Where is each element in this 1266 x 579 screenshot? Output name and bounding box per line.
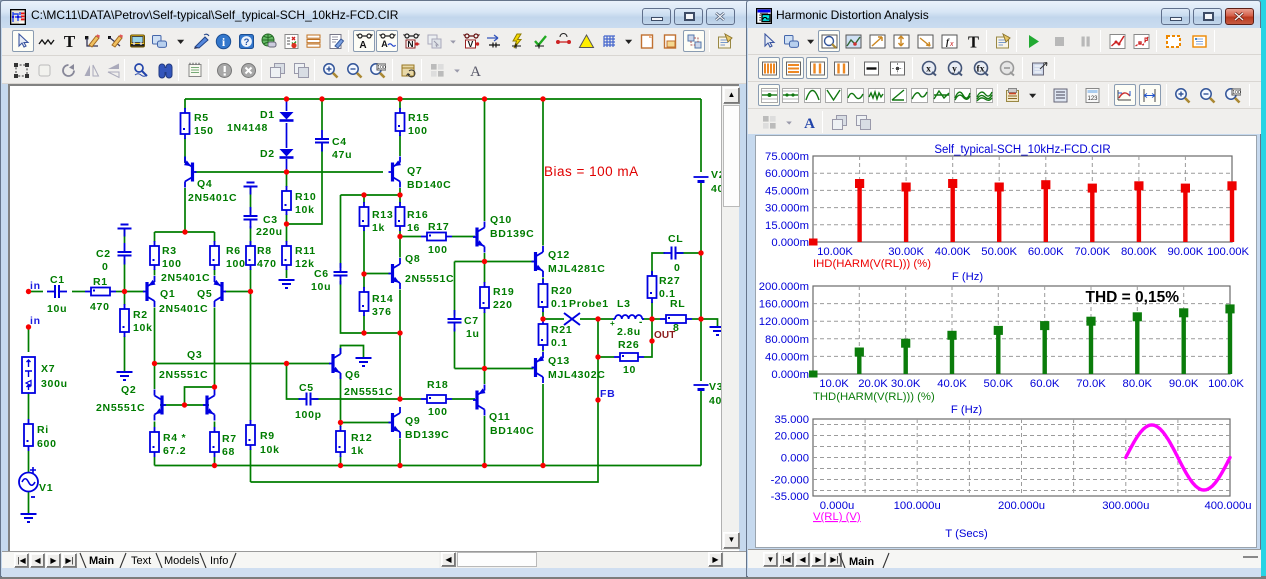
wire probe left bbox=[543, 318, 564, 320]
toolbar icon: valley bbox=[780, 84, 802, 106]
toolbar icon: smooth wave bbox=[844, 84, 866, 106]
wire Q3 collector up bbox=[214, 387, 216, 389]
svg-text:Q10: Q10 bbox=[490, 214, 512, 226]
junction bbox=[397, 396, 402, 401]
svg-text:10: 10 bbox=[623, 364, 636, 376]
toolbar icon: show node names bbox=[400, 30, 422, 52]
toolbar icon: vertical tag bbox=[890, 30, 912, 52]
svg-text:R15: R15 bbox=[408, 112, 429, 124]
junction bbox=[284, 169, 289, 174]
ground under R2 bbox=[117, 372, 133, 380]
dark strip at bottom bbox=[0, 576, 1266, 579]
wire X7 to Ri bbox=[28, 393, 30, 419]
plot 1 x axis labels bbox=[817, 246, 1249, 258]
wire R8 top bbox=[250, 242, 252, 246]
toolbar icon: font bbox=[464, 59, 486, 81]
wire R8 bottom to node bbox=[250, 269, 252, 292]
transistor Q1 bbox=[143, 276, 156, 307]
svg-text:y: y bbox=[952, 64, 957, 74]
svg-text:75.000m: 75.000m bbox=[765, 151, 809, 163]
svg-text:R26: R26 bbox=[618, 339, 639, 351]
resistor R5 bbox=[181, 108, 190, 139]
resistor R14 bbox=[360, 287, 369, 316]
junction bbox=[338, 463, 343, 468]
junction bbox=[361, 192, 366, 197]
wire R6 top bbox=[214, 232, 216, 242]
svg-text:V1: V1 bbox=[39, 482, 53, 494]
transistor Q8 bbox=[389, 258, 401, 289]
wire C3 to R8 bbox=[250, 226, 252, 242]
svg-text:C2: C2 bbox=[96, 248, 111, 260]
plot 3 x axis labels bbox=[820, 500, 1252, 512]
wire C2 bottom to sum node bbox=[124, 259, 126, 292]
toolbar icon: cross wave bbox=[930, 84, 952, 106]
wire R13 top bbox=[363, 195, 365, 203]
toolbar icon: span bbox=[1139, 84, 1161, 106]
capacitor C4 bbox=[315, 130, 329, 152]
svg-text:R19: R19 bbox=[493, 286, 514, 298]
toolbar icon: layout grid bbox=[426, 59, 448, 81]
svg-text:100: 100 bbox=[162, 258, 182, 270]
svg-text:50.0K: 50.0K bbox=[984, 378, 1014, 390]
svg-text:in: in bbox=[30, 280, 41, 292]
svg-text:40.0K: 40.0K bbox=[937, 378, 967, 390]
svg-text:C1: C1 bbox=[50, 274, 65, 286]
wire R12 top bbox=[340, 423, 342, 428]
transistor Q9 bbox=[389, 407, 401, 438]
capacitor C1 bbox=[47, 285, 67, 298]
wire Q3 emitter bbox=[214, 422, 216, 428]
junction bbox=[152, 361, 157, 366]
svg-text:0: 0 bbox=[102, 261, 109, 273]
svg-text:BD139C: BD139C bbox=[405, 429, 449, 441]
ground above C2 bbox=[118, 225, 132, 237]
svg-text:2N5551C: 2N5551C bbox=[344, 386, 393, 398]
svg-text:0.000m: 0.000m bbox=[771, 237, 809, 249]
toolbar icon: watch bbox=[1188, 30, 1210, 52]
wire ground stub at RL bbox=[701, 319, 718, 327]
wire VF node y362 bbox=[155, 363, 331, 365]
svg-text:D1: D1 bbox=[260, 109, 275, 121]
svg-text:470: 470 bbox=[257, 258, 277, 270]
svg-text:V3: V3 bbox=[709, 381, 721, 393]
svg-text:R13: R13 bbox=[372, 209, 393, 221]
source V1 bbox=[19, 467, 38, 497]
wire Q6 collector staple bbox=[341, 346, 364, 358]
toolbar icon: close x circle bbox=[237, 59, 259, 81]
analysis window icon bbox=[756, 8, 772, 24]
toolbar icon: zoom in bbox=[1172, 84, 1194, 106]
toolbar icon: flip vertical bbox=[80, 59, 102, 81]
toolbar icon: show voltages bbox=[460, 30, 482, 52]
wire L3 right node bbox=[642, 318, 652, 320]
toolbar icon: show power bbox=[507, 30, 529, 52]
toolbar icon: text mode bbox=[962, 30, 984, 52]
svg-text:Q1: Q1 bbox=[160, 288, 175, 300]
wire R21 bbox=[542, 319, 544, 320]
toolbar icon: show conditions bbox=[530, 30, 552, 52]
plot 1 gridlines bbox=[813, 156, 1232, 242]
toolbar icon: dropdown grey bbox=[445, 30, 462, 52]
toolbar icon: zoom fx bbox=[970, 57, 992, 79]
resistor R26 bbox=[614, 353, 644, 361]
wire RL left bbox=[652, 318, 660, 320]
resistor R13 bbox=[360, 202, 369, 231]
svg-text:60.000m: 60.000m bbox=[765, 168, 809, 180]
toolbar icon: bring front bbox=[828, 111, 850, 133]
svg-text:D2: D2 bbox=[260, 148, 275, 160]
svg-text:R9: R9 bbox=[260, 430, 275, 442]
svg-text:40: 40 bbox=[711, 183, 721, 195]
toolbar icon: component mode bbox=[149, 30, 171, 52]
junction bbox=[540, 96, 545, 101]
svg-text:376: 376 bbox=[372, 306, 392, 318]
toolbar icon: info mode bbox=[213, 30, 235, 52]
resistor R10 bbox=[282, 186, 291, 215]
svg-text:A: A bbox=[381, 39, 388, 49]
svg-text:IHD(HARM(V(RL))) (%): IHD(HARM(V(RL))) (%) bbox=[813, 258, 931, 270]
toolbar icon: layout grid bbox=[758, 111, 780, 133]
svg-text:0: 0 bbox=[674, 262, 681, 274]
junction bbox=[397, 330, 402, 335]
toolbar icon: paste waveform bbox=[1003, 84, 1025, 106]
svg-text:30.000m: 30.000m bbox=[765, 203, 809, 215]
junction bbox=[397, 96, 402, 101]
toolbar icon: grid dropdown bbox=[620, 30, 637, 52]
svg-text:100: 100 bbox=[428, 406, 448, 418]
toolbar icon: send back bbox=[852, 111, 874, 133]
svg-text:-: - bbox=[639, 317, 643, 328]
svg-text:Q8: Q8 bbox=[405, 253, 420, 265]
junction bbox=[595, 316, 600, 321]
svg-text:R1: R1 bbox=[93, 276, 108, 288]
toolbar icon: run bbox=[1022, 30, 1044, 52]
toolbar icon: properties bbox=[992, 30, 1014, 52]
wire R18 feed bbox=[400, 398, 421, 400]
junction bbox=[698, 250, 703, 255]
svg-text:A: A bbox=[470, 64, 481, 79]
svg-text:10.0K: 10.0K bbox=[819, 378, 849, 390]
wire C4 bottom to node y223 bbox=[287, 143, 323, 224]
wire Q5 base to R8 node bbox=[225, 291, 251, 293]
wire Q12 base rail y260 bbox=[455, 261, 534, 263]
bottom tab row bbox=[748, 549, 1261, 568]
subckt X7 bbox=[22, 357, 35, 393]
junction bbox=[182, 229, 187, 234]
toolbar icon: page icon 2 bbox=[659, 30, 681, 52]
svg-text:0.1: 0.1 bbox=[551, 298, 568, 310]
svg-text:Self_typical-SCH_10kHz-FCD.CIR: Self_typical-SCH_10kHz-FCD.CIR bbox=[934, 144, 1110, 156]
wire R27 top to CL bbox=[652, 253, 665, 298]
wire Q3 diode bracket bbox=[185, 387, 215, 405]
svg-text:90.0K: 90.0K bbox=[1169, 378, 1199, 390]
junction bbox=[182, 402, 187, 407]
app icon bbox=[10, 9, 26, 25]
wire R9 vertical bbox=[250, 292, 252, 422]
wire right rail V2 bbox=[700, 99, 702, 172]
wire iground to C3 bbox=[250, 187, 252, 214]
resistor R7 bbox=[210, 427, 219, 457]
svg-text:Q12: Q12 bbox=[548, 249, 570, 261]
svg-text:10k: 10k bbox=[260, 444, 280, 456]
transistor Q5 bbox=[214, 276, 227, 307]
toolbar icon: node snap bbox=[683, 30, 705, 52]
svg-text:R21: R21 bbox=[551, 324, 572, 336]
toolbar icon: picture mode bbox=[104, 30, 126, 52]
wire Q11 collector to rail bbox=[484, 416, 486, 466]
toolbar icon: component dropdown bbox=[172, 30, 189, 52]
junction bbox=[248, 289, 253, 294]
svg-text:2N5401C: 2N5401C bbox=[161, 272, 210, 284]
svg-text:Q5: Q5 bbox=[197, 288, 212, 300]
wire R7 bottom bbox=[214, 457, 216, 466]
svg-text:x: x bbox=[926, 64, 931, 74]
toolbar icon: font bbox=[798, 111, 820, 133]
junction bbox=[397, 234, 402, 239]
toolbar icon: find component binoculars bbox=[154, 59, 176, 81]
svg-text:F (Hz): F (Hz) bbox=[951, 404, 983, 416]
toolbar icon: flip horizontal bbox=[102, 59, 124, 81]
resistor Ri bbox=[24, 419, 33, 451]
toolbar icon: auto scale bbox=[1114, 84, 1136, 106]
svg-text:10u: 10u bbox=[47, 303, 67, 315]
svg-text:V: V bbox=[467, 39, 473, 49]
wire R26 left bbox=[598, 319, 614, 357]
vertical scrollbar bbox=[721, 86, 739, 550]
wire R5 top lead bbox=[184, 99, 186, 109]
junction bbox=[649, 316, 654, 321]
desktop cyan strip at right edge bbox=[1260, 0, 1266, 579]
svg-text:40.00K: 40.00K bbox=[935, 246, 971, 258]
wire R2 to ground bbox=[124, 336, 126, 371]
toolbar icon: send to back bbox=[290, 59, 312, 81]
junction bbox=[319, 96, 324, 101]
plot 3 y axis labels bbox=[771, 414, 809, 503]
transistor Q11 bbox=[473, 385, 486, 416]
ground under V1 bbox=[21, 514, 37, 522]
junction bbox=[482, 259, 487, 264]
wire node y194 horizontal bbox=[341, 194, 401, 196]
resistor R15 bbox=[396, 108, 405, 136]
wire R1 to sum node bbox=[116, 291, 125, 293]
transistor Q13 bbox=[532, 352, 545, 383]
wire R14 top bbox=[363, 274, 365, 288]
svg-text:Q9: Q9 bbox=[405, 415, 420, 427]
resistor R1 bbox=[85, 288, 116, 296]
wire Q2-Q3 base rail bbox=[160, 404, 209, 406]
plot 2 y axis labels bbox=[759, 281, 809, 381]
toolbar icon: new page bbox=[636, 30, 658, 52]
svg-text:THD = 0,15%: THD = 0,15% bbox=[1086, 289, 1180, 306]
transistor Q6 bbox=[329, 348, 341, 379]
svg-text:N: N bbox=[407, 39, 413, 49]
toolbar icon: component bus bbox=[127, 30, 149, 52]
toolbar icon: zoom 100% bbox=[366, 59, 388, 81]
svg-text:RL: RL bbox=[670, 298, 685, 310]
toolbar icon: dc limits bbox=[1162, 30, 1184, 52]
toolbar icon: select region bbox=[10, 59, 32, 81]
svg-text:C7: C7 bbox=[464, 315, 479, 327]
wire C6 lower to rail y332 bbox=[341, 281, 401, 333]
wire R17 to Q10 base bbox=[400, 236, 421, 238]
svg-text:Text: Text bbox=[131, 555, 151, 567]
toolbar icon: find bbox=[130, 59, 152, 81]
toolbar icon: layout dropdown bbox=[449, 59, 466, 81]
svg-text:1k: 1k bbox=[351, 445, 364, 457]
svg-text:40: 40 bbox=[709, 395, 721, 407]
svg-text:0.000: 0.000 bbox=[781, 453, 809, 465]
toolbar icon: plot group horizontal bbox=[782, 57, 804, 79]
svg-text:0.1: 0.1 bbox=[551, 337, 568, 349]
svg-text:10k: 10k bbox=[295, 204, 315, 216]
toolbar icon: select arrow bbox=[12, 30, 34, 52]
wire R27 bottom bbox=[651, 302, 653, 319]
svg-text:15.000m: 15.000m bbox=[765, 220, 809, 232]
plot 2 frame bbox=[813, 286, 1230, 374]
plot 2 gridlines bbox=[813, 286, 1230, 374]
svg-text:2.8u: 2.8u bbox=[617, 326, 641, 338]
wire R2 top bbox=[124, 292, 126, 306]
svg-text:2N5401C: 2N5401C bbox=[188, 192, 237, 204]
toolbar icon: checklist bbox=[280, 30, 302, 52]
capacitor C6 bbox=[334, 263, 348, 285]
ground above C3 bbox=[244, 183, 258, 195]
wire node to V3 bbox=[700, 253, 702, 319]
svg-text:FB: FB bbox=[600, 388, 615, 400]
resistor R12 bbox=[336, 426, 345, 457]
junction bbox=[284, 361, 289, 366]
svg-text:Bias = 100 mA: Bias = 100 mA bbox=[544, 164, 639, 179]
ground under R11 bbox=[279, 280, 295, 288]
svg-text:Q7: Q7 bbox=[407, 165, 422, 177]
wire R19 top bbox=[484, 262, 486, 284]
toolbar icon: zoom out disabled bbox=[996, 57, 1018, 79]
wire Q13 base rail y367 bbox=[455, 368, 534, 370]
svg-text:0.000m: 0.000m bbox=[771, 369, 809, 381]
ground at RL bbox=[710, 327, 726, 335]
svg-text:-20.000: -20.000 bbox=[771, 475, 809, 487]
transistor Q7 bbox=[389, 157, 402, 188]
wire Q11 emitter to node bbox=[484, 369, 486, 385]
toolbar icon: bell bbox=[801, 84, 823, 106]
wire R4 bottom bbox=[154, 457, 156, 466]
svg-text:F (Hz): F (Hz) bbox=[952, 271, 984, 283]
toolbar icon: flag mode bbox=[190, 30, 212, 52]
toolbar icon: data list bbox=[1050, 84, 1072, 106]
svg-text:10u: 10u bbox=[311, 281, 331, 293]
svg-text:BD140C: BD140C bbox=[490, 425, 534, 437]
svg-text:Q6: Q6 bbox=[345, 369, 360, 381]
capacitor C2 bbox=[118, 243, 132, 265]
svg-text:R20: R20 bbox=[551, 285, 572, 297]
wire R3 to Q1 emitter bbox=[154, 269, 156, 276]
toolbar icon: cursor mode bbox=[842, 30, 864, 52]
svg-text:220u: 220u bbox=[256, 226, 283, 238]
toolbar icon: dropdown bbox=[802, 30, 819, 52]
toolbar icon: horizontal tag bbox=[914, 30, 936, 52]
bottom tab row with hscroll bbox=[2, 551, 752, 568]
plot 3 frame bbox=[813, 419, 1230, 496]
svg-text:200.000m: 200.000m bbox=[759, 281, 809, 293]
toolbar icon: calculator bbox=[1082, 84, 1104, 106]
svg-text:T: T bbox=[967, 33, 978, 50]
junction bbox=[482, 96, 487, 101]
svg-text:Ri: Ri bbox=[37, 424, 49, 436]
resistor R8 bbox=[246, 241, 255, 270]
svg-text:2N5551C: 2N5551C bbox=[159, 369, 208, 381]
svg-text:220: 220 bbox=[493, 299, 513, 311]
svg-text:60.00K: 60.00K bbox=[1028, 246, 1064, 258]
inductor L3 bbox=[613, 315, 644, 319]
resistor R2 bbox=[120, 304, 129, 337]
toolbar icon: show attribute text bbox=[353, 30, 375, 52]
svg-text:1k: 1k bbox=[372, 222, 385, 234]
wire Q9 emitter to rail bbox=[399, 439, 401, 466]
svg-text:300u: 300u bbox=[41, 378, 68, 390]
wire V2 to node bbox=[700, 181, 702, 253]
wire Q10 collector bbox=[484, 99, 486, 221]
toolbar icon: show node numbers bbox=[376, 30, 398, 52]
junction bbox=[540, 316, 545, 321]
toolbar icon: info page bbox=[325, 30, 347, 52]
svg-text:2N5551C: 2N5551C bbox=[405, 273, 454, 285]
wire C7 top bbox=[454, 262, 456, 316]
svg-text:Info: Info bbox=[210, 555, 228, 567]
wire R3 top bbox=[154, 232, 156, 242]
chart panel bbox=[755, 135, 1257, 548]
toolbar icon: zoom 100% bbox=[1222, 84, 1244, 106]
wire R16 bottom bbox=[399, 230, 401, 237]
svg-text:X7: X7 bbox=[41, 363, 55, 375]
wire Q2 emitter bbox=[154, 422, 156, 428]
wire D1 anode bbox=[286, 99, 288, 111]
svg-text:Q13: Q13 bbox=[548, 355, 570, 367]
svg-text:45.000m: 45.000m bbox=[765, 185, 809, 197]
junction bbox=[482, 463, 487, 468]
toolbar icon: show pin connections bbox=[553, 30, 575, 52]
svg-text:V2: V2 bbox=[711, 169, 721, 181]
wire Q5 collector down bbox=[214, 308, 216, 388]
svg-text:Q4: Q4 bbox=[197, 178, 212, 190]
svg-text:150: 150 bbox=[194, 125, 214, 137]
toolbar icon: pause disabled bbox=[1074, 30, 1096, 52]
svg-text:T (Secs): T (Secs) bbox=[945, 528, 988, 540]
svg-text:60.0K: 60.0K bbox=[1030, 378, 1060, 390]
svg-text:300.000u: 300.000u bbox=[1102, 500, 1149, 512]
svg-text:R18: R18 bbox=[427, 379, 448, 391]
svg-text:80.0K: 80.0K bbox=[1123, 378, 1153, 390]
toolbar icon: zoom y bbox=[944, 57, 966, 79]
svg-text:470: 470 bbox=[90, 301, 110, 313]
wire sum node to Q1 base bbox=[125, 291, 145, 293]
svg-text:1u: 1u bbox=[466, 328, 480, 340]
toolbar icon: formula text bbox=[938, 30, 960, 52]
toolbar icon: wire mode bbox=[35, 30, 57, 52]
svg-text:BD139C: BD139C bbox=[490, 228, 534, 240]
toolbar icon: component mode bbox=[780, 30, 802, 52]
wire Q12 collector bbox=[542, 99, 544, 246]
svg-text:R14: R14 bbox=[372, 293, 393, 305]
wire Q13 collector bbox=[542, 384, 544, 466]
wire C7 bottom bbox=[454, 329, 456, 369]
capacitor CL bbox=[664, 247, 684, 260]
svg-text:V(RL) (V): V(RL) (V) bbox=[813, 511, 861, 523]
junction bbox=[540, 463, 545, 468]
svg-text:12k: 12k bbox=[295, 258, 315, 270]
wire bottom rail bbox=[155, 465, 702, 467]
toolbar icon: grid bbox=[598, 30, 620, 52]
toolbar icon: multi wave 1 bbox=[952, 84, 974, 106]
